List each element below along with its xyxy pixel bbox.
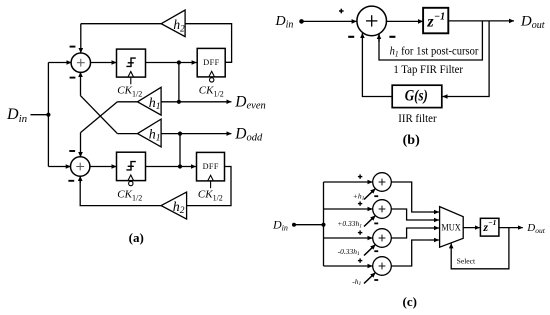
adder A3 — [373, 229, 392, 248]
arrow coefficient +h1 into A1 — [364, 189, 375, 200]
minus sign A4 — [374, 279, 378, 281]
plus sign A4 input — [358, 258, 362, 262]
junction L2 output node — [178, 164, 182, 168]
label -h1 — [352, 277, 361, 287]
wire z-1 to D_out (b) — [448, 20, 514, 22]
wire A3 to MUX — [391, 228, 430, 238]
svg-text:MUX: MUX — [441, 223, 461, 233]
plus sign A3 input — [358, 230, 362, 234]
arrow A2 into MUX — [430, 219, 439, 221]
wire G(s) to S3 (b) — [362, 41, 392, 97]
amplifier h1 (bottom) — [138, 119, 162, 147]
wire L1 node down to D_even line — [178, 63, 180, 102]
junction D_in bus (c) — [322, 223, 326, 227]
latch L2 clock inversion bubble — [129, 181, 133, 185]
svg-text:z−1: z−1 — [426, 12, 445, 31]
svg-text:-h1: -h1 — [352, 277, 361, 287]
svg-text:G(s): G(s) — [405, 88, 428, 105]
summing junction S1 (top) — [71, 53, 90, 72]
wire row2 to adder A2 — [324, 208, 373, 210]
arrow select into MUX (c) — [450, 243, 452, 249]
svg-text:IIR filter: IIR filter — [398, 111, 436, 125]
adder A4 — [373, 257, 392, 276]
arrow into S2 bottom — [79, 176, 81, 183]
wire G(s) feedback tap (b) — [460, 21, 489, 97]
wire crossing diagonal to top summer — [81, 96, 118, 134]
arrow into G(s) (b) — [443, 96, 460, 98]
node D_out (c) label — [526, 222, 545, 235]
wire D_odd output — [161, 133, 231, 135]
adder A1 — [373, 173, 392, 192]
wire h2 top feedback horizontal — [81, 23, 162, 25]
wire DFF U2 clock — [210, 181, 212, 188]
wire D_even output — [161, 101, 231, 103]
plus sign A1 input — [358, 174, 362, 178]
label CK1/2 latch L1 — [117, 84, 142, 98]
svg-text:CK1/2: CK1/2 — [198, 188, 223, 202]
DFF U2 box — [197, 152, 225, 181]
arrow coefficient -h1 into A4 — [364, 273, 375, 284]
svg-text:+0.33h1: +0.33h1 — [337, 219, 362, 229]
wire input bus vertical (a) — [47, 63, 49, 167]
junction L1 output node — [177, 60, 181, 64]
wire latch L1 clock — [130, 77, 132, 84]
summing junction S2 (bottom) — [71, 157, 90, 176]
label (c) — [403, 294, 417, 309]
wire down into S2 top — [80, 133, 82, 157]
delay block z-1 (b) — [423, 8, 448, 34]
adder A2 — [373, 200, 392, 219]
wire D_in stub (a) — [31, 114, 49, 116]
label 1 Tap FIR Filter (b) — [393, 62, 463, 76]
label G(s) — [405, 88, 428, 105]
svg-text:CK1/2: CK1/2 — [117, 84, 142, 98]
svg-text:Din: Din — [275, 14, 294, 31]
label DFF U2 — [203, 162, 219, 171]
label z-1 (b) — [426, 12, 445, 31]
wire crossing diagonal to bottom summer — [81, 102, 118, 133]
label CK1/2 DFF U2 — [198, 188, 223, 202]
label Select — [457, 257, 476, 266]
wire S3 to z-1 (b) — [386, 20, 423, 22]
svg-text:Din: Din — [272, 217, 288, 232]
latch L2 clock wedge — [128, 175, 134, 181]
arrow A3 into MUX — [430, 227, 439, 229]
minus sign h1 input (b) — [389, 36, 395, 38]
plus sign A2 input — [358, 201, 362, 205]
node D_in (b) label — [275, 14, 294, 31]
label MUX — [441, 223, 461, 233]
svg-text:h1 for 1st post-cursor: h1 for 1st post-cursor — [390, 45, 479, 58]
label +h1 — [353, 191, 365, 201]
DFF U2 clock wedge — [208, 175, 214, 181]
wire A1 to MUX — [391, 182, 430, 212]
minus sign S2 bottom input — [68, 180, 74, 182]
wire D_in to summer (b) — [302, 20, 357, 22]
svg-text:(a): (a) — [129, 230, 144, 245]
minus sign S1 bottom input — [70, 77, 76, 79]
label z-1 (c) — [482, 218, 496, 234]
wire h1 top tip stub — [117, 101, 137, 103]
IIR block G(s) box — [392, 85, 442, 107]
arrow A1 into MUX — [430, 211, 439, 213]
delay block z-1 (c) — [480, 218, 499, 236]
svg-text:CK1/2: CK1/2 — [117, 188, 142, 202]
wire h1 feedback tap (b) — [379, 21, 482, 60]
arrow G feedback into S3 (b) — [361, 33, 363, 41]
svg-text:Dout: Dout — [520, 13, 545, 31]
node D_even label — [234, 93, 265, 111]
wire MUX to z-1 (c) — [463, 227, 480, 229]
node D_in (b) dot — [299, 19, 304, 24]
svg-text:DFF: DFF — [203, 162, 219, 171]
minus sign S2 top input — [69, 150, 75, 152]
label DFF U1 — [203, 58, 219, 67]
wire h2 top feedback down into S1 — [80, 24, 82, 53]
label +0.33h1 — [337, 219, 362, 229]
node D_in (a) label — [6, 106, 28, 125]
plus sign summer input (b) — [339, 9, 344, 14]
svg-text:Dout: Dout — [526, 222, 545, 235]
svg-text:-0.33h1: -0.33h1 — [338, 247, 360, 257]
wire h2 top base to corner — [185, 24, 232, 63]
minus sign A3 — [374, 250, 378, 252]
wire bus to top summer (a) — [48, 62, 71, 64]
minus sign G input (b) — [348, 36, 354, 38]
svg-text:Select: Select — [457, 257, 476, 266]
junction D_in bus (a) — [46, 113, 50, 117]
latch L1 slicer symbol — [126, 58, 135, 66]
wire S1 to latch L1 — [90, 62, 116, 64]
node D_in (c) dot — [292, 223, 296, 227]
latch L1 clock wedge — [128, 72, 134, 78]
DFF U1 clock inversion bubble — [210, 78, 214, 82]
svg-text:Deven: Deven — [234, 93, 265, 111]
svg-text:CK1/2: CK1/2 — [199, 84, 224, 98]
wire up into S1 bottom — [80, 72, 82, 96]
label h1 for 1st post-cursor (b) — [390, 45, 479, 58]
svg-text:(b): (b) — [403, 133, 420, 148]
latch L1 box — [117, 49, 146, 77]
DFF U1 box — [197, 48, 225, 77]
wire row4 to adder A4 — [324, 265, 373, 267]
arrow h1 feedback into S3 (b) — [378, 34, 380, 42]
node D_in (c) label — [272, 217, 288, 232]
svg-text:Din: Din — [6, 106, 28, 125]
svg-text:Dodd: Dodd — [234, 125, 263, 143]
DFF U1 clock wedge — [209, 71, 215, 77]
amplifier h2 (top) — [161, 10, 185, 37]
label CK1/2 latch L2 — [117, 188, 142, 202]
wire h1 bottom tip stub — [117, 133, 137, 135]
node D_out (b) label — [520, 13, 545, 31]
latch L2 box — [117, 152, 146, 180]
node D_odd label — [234, 125, 263, 143]
wire row3 to adder A3 — [324, 237, 373, 239]
wire A4 to MUX — [391, 240, 430, 266]
wire row1 to adder A1 — [324, 181, 373, 183]
junction D_even node — [177, 100, 181, 104]
wire S2 to latch L2 — [90, 166, 117, 168]
wire bus to bottom summer (a) — [48, 166, 70, 168]
wire A2 to MUX — [391, 209, 430, 220]
minus sign A2 — [374, 222, 378, 224]
MUX trapezoid — [440, 207, 464, 248]
amplifier h1 (top) — [138, 87, 162, 115]
label (a) — [129, 230, 144, 245]
arrow A4 into MUX — [430, 239, 439, 241]
svg-text:DFF: DFF — [203, 58, 219, 67]
minus sign S1 top input — [70, 46, 76, 48]
latch L2 slicer symbol — [126, 162, 135, 170]
label (b) — [403, 133, 420, 148]
label -0.33h1 — [338, 247, 360, 257]
junction D_odd node — [178, 132, 182, 136]
svg-text:+h1: +h1 — [353, 191, 365, 201]
wire L2 node up to D_odd line — [179, 134, 181, 167]
label IIR filter — [398, 111, 436, 125]
wire select feedback (c) — [451, 228, 509, 269]
arrow coefficient +0.33h1 into A2 — [364, 216, 375, 227]
label CK1/2 DFF U1 — [199, 84, 224, 98]
wire D_in to bus (c) — [294, 224, 324, 226]
amplifier h2 (bottom) — [161, 192, 187, 219]
svg-text:z−1: z−1 — [482, 218, 496, 234]
minus sign A1 — [374, 195, 378, 197]
wire DFF U2 to h2 bottom — [187, 167, 231, 206]
wire input bus vertical (c) — [323, 182, 325, 266]
wire latch L1 to DFF U1 — [146, 62, 197, 64]
arrow coefficient -0.33h1 into A3 — [364, 245, 375, 256]
svg-text:(c): (c) — [403, 294, 417, 309]
wire z-1 to D_out (c) — [499, 227, 523, 229]
wire h2 bottom to S2 — [80, 176, 161, 206]
wire latch L2 to DFF U2 — [146, 166, 196, 168]
svg-text:1 Tap FIR Filter: 1 Tap FIR Filter — [393, 62, 463, 76]
summing junction S3 (b) — [357, 6, 387, 36]
